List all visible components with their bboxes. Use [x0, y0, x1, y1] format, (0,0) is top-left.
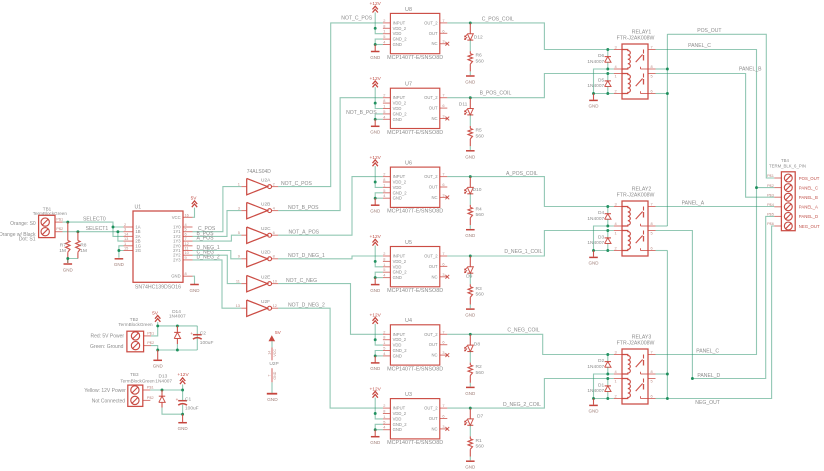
svg-text:5: 5 [383, 267, 385, 272]
svg-text:6: 6 [442, 103, 444, 108]
svg-text:2: 2 [383, 329, 385, 334]
svg-text:U4: U4 [405, 318, 412, 324]
svg-text:P$3: P$3 [767, 192, 774, 197]
svg-text:3: 3 [615, 45, 617, 50]
svg-text:PANEL_D: PANEL_D [697, 373, 720, 379]
svg-text:8: 8 [383, 177, 385, 182]
svg-text:NOT_C_POS: NOT_C_POS [341, 16, 372, 22]
svg-text:P$1: P$1 [147, 385, 154, 390]
svg-text:9: 9 [238, 254, 240, 259]
svg-text:INPUT: INPUT [393, 20, 406, 25]
svg-text:OUT_2: OUT_2 [424, 254, 438, 259]
svg-text:3: 3 [615, 202, 617, 207]
svg-text:GND: GND [393, 196, 402, 201]
svg-text:U1: U1 [135, 205, 142, 211]
svg-text:GND: GND [465, 313, 476, 318]
svg-text:6: 6 [442, 261, 444, 266]
svg-text:9: 9 [185, 255, 187, 260]
svg-text:POS_OUT: POS_OUT [799, 176, 820, 181]
svg-text:11: 11 [236, 278, 240, 283]
svg-text:D9: D9 [466, 274, 473, 280]
svg-text:GND: GND [465, 465, 476, 470]
svg-text:U7: U7 [405, 82, 412, 88]
svg-text:GND: GND [273, 371, 277, 379]
svg-text:NEG_OUT: NEG_OUT [799, 224, 820, 229]
svg-text:U2F: U2F [261, 299, 270, 305]
svg-text:GND: GND [589, 261, 600, 266]
svg-text:3: 3 [238, 205, 240, 210]
svg-text:6: 6 [273, 230, 275, 235]
svg-text:560: 560 [476, 133, 484, 139]
svg-text:GND: GND [267, 397, 278, 403]
svg-text:R6: R6 [476, 53, 483, 59]
svg-text:U5: U5 [405, 240, 412, 246]
svg-text:GND: GND [465, 233, 476, 238]
svg-text:U2P: U2P [269, 361, 278, 367]
svg-text:NC: NC [432, 274, 438, 279]
svg-text:MCP1407T-E/SNSO8D: MCP1407T-E/SNSO8D [387, 366, 443, 372]
svg-text:2: 2 [383, 403, 385, 408]
svg-text:D2: D2 [598, 358, 604, 364]
svg-text:D8: D8 [474, 342, 481, 348]
svg-text:6: 6 [651, 89, 653, 94]
svg-text:5V: 5V [275, 330, 282, 336]
svg-text:D_NEG_2_COIL: D_NEG_2_COIL [503, 402, 541, 408]
svg-text:VDD_2: VDD_2 [393, 337, 407, 342]
svg-text:Green: Ground: Green: Ground [90, 344, 124, 350]
svg-text:OUT: OUT [429, 106, 438, 111]
svg-text:2: 2 [615, 394, 617, 399]
svg-text:+: + [190, 331, 193, 336]
svg-text:2: 2 [383, 172, 385, 177]
svg-text:VDD: VDD [393, 343, 402, 348]
svg-text:3: 3 [442, 350, 444, 355]
svg-text:12: 12 [273, 303, 277, 308]
svg-text:1M: 1M [80, 248, 87, 254]
svg-text:OUT_2: OUT_2 [424, 95, 438, 100]
svg-text:560: 560 [476, 292, 484, 298]
svg-text:Yellow: 12V Power: Yellow: 12V Power [84, 388, 126, 394]
svg-text:Not Connected: Not Connected [92, 398, 126, 404]
svg-text:5: 5 [383, 109, 385, 114]
svg-text:PANEL_C: PANEL_C [688, 43, 711, 49]
svg-text:NC: NC [432, 426, 438, 431]
svg-text:6: 6 [442, 28, 444, 33]
svg-text:D7: D7 [477, 414, 484, 420]
svg-text:R4: R4 [476, 206, 483, 212]
svg-text:1M: 1M [59, 248, 66, 254]
svg-text:R5: R5 [476, 128, 483, 134]
svg-text:GND: GND [370, 440, 381, 445]
svg-text:2: 2 [615, 246, 617, 251]
svg-text:3: 3 [615, 350, 617, 355]
svg-text:GND_2: GND_2 [393, 270, 408, 275]
svg-text:VDD: VDD [393, 31, 402, 36]
svg-text:1: 1 [383, 29, 385, 34]
svg-text:D11: D11 [459, 102, 468, 108]
svg-text:7: 7 [651, 45, 653, 50]
svg-text:1N4007: 1N4007 [587, 216, 604, 222]
svg-text:1N4007: 1N4007 [587, 83, 604, 89]
svg-text:+: + [176, 397, 179, 402]
svg-text:3: 3 [442, 424, 444, 429]
svg-text:GND: GND [171, 274, 180, 279]
svg-text:2: 2 [615, 89, 617, 94]
svg-text:3: 3 [442, 114, 444, 119]
svg-text:5: 5 [651, 231, 653, 236]
svg-text:GND_2: GND_2 [393, 348, 408, 353]
svg-text:P$2: P$2 [147, 340, 154, 345]
svg-text:Orange: S0: Orange: S0 [10, 221, 36, 227]
svg-text:B_POS_COIL: B_POS_COIL [480, 90, 512, 96]
svg-text:5: 5 [651, 74, 653, 79]
svg-text:GND_2: GND_2 [393, 37, 408, 42]
svg-text:5: 5 [383, 419, 385, 424]
svg-text:Red: 5V Power: Red: 5V Power [90, 333, 124, 339]
svg-text:PANEL_C: PANEL_C [696, 348, 719, 354]
svg-text:PANEL_A: PANEL_A [799, 205, 818, 210]
svg-text:7: 7 [651, 350, 653, 355]
svg-text:6: 6 [442, 414, 444, 419]
svg-text:GND: GND [393, 275, 402, 280]
svg-text:OUT: OUT [429, 31, 438, 36]
svg-text:INPUT: INPUT [393, 254, 406, 259]
svg-text:6: 6 [651, 246, 653, 251]
svg-text:1N4007: 1N4007 [587, 59, 604, 65]
svg-text:TermBlockGreen: TermBlockGreen [120, 378, 155, 383]
svg-text:R7: R7 [60, 242, 67, 248]
svg-text:8: 8 [185, 271, 187, 276]
svg-text:GND: GND [465, 80, 476, 85]
svg-text:MCP1407T-E/SNSO8D: MCP1407T-E/SNSO8D [387, 440, 443, 446]
svg-text:U2B: U2B [261, 201, 270, 207]
svg-text:VDD: VDD [393, 416, 402, 421]
svg-text:560: 560 [476, 212, 484, 218]
svg-text:1: 1 [615, 74, 617, 79]
svg-text:GND: GND [393, 427, 402, 432]
svg-text:D10: D10 [473, 187, 482, 193]
svg-text:U8: U8 [405, 7, 412, 13]
svg-text:NEG_OUT: NEG_OUT [695, 400, 720, 406]
svg-text:13: 13 [236, 303, 240, 308]
svg-text:D13: D13 [158, 373, 167, 379]
svg-text:NOT_B_POS: NOT_B_POS [346, 110, 377, 116]
svg-text:SN74HC139DSO16: SN74HC139DSO16 [135, 285, 181, 291]
svg-text:MCP1407T-E/SNSO8D: MCP1407T-E/SNSO8D [387, 130, 443, 136]
svg-text:OUT_2: OUT_2 [424, 174, 438, 179]
svg-text:GND: GND [370, 366, 381, 371]
svg-text:PANEL_B: PANEL_B [739, 67, 762, 73]
svg-text:1: 1 [383, 414, 385, 419]
svg-text:14: 14 [268, 351, 272, 355]
svg-text:U3: U3 [405, 392, 412, 398]
svg-text:3: 3 [442, 39, 444, 44]
svg-text:VDD_2: VDD_2 [393, 180, 407, 185]
svg-text:MCP1407T-E/SNSO8D: MCP1407T-E/SNSO8D [387, 55, 443, 61]
svg-text:C_NEG_COIL: C_NEG_COIL [507, 328, 539, 334]
svg-text:P$1: P$1 [767, 173, 774, 178]
svg-text:D12: D12 [474, 35, 483, 41]
svg-text:D4: D4 [598, 210, 604, 216]
svg-text:GND: GND [589, 104, 600, 109]
svg-text:16: 16 [185, 212, 189, 217]
svg-text:1: 1 [383, 182, 385, 187]
svg-text:C1: C1 [185, 396, 191, 402]
svg-text:R8: R8 [80, 242, 87, 248]
svg-text:5: 5 [651, 379, 653, 384]
svg-text:Dot: S1: Dot: S1 [19, 237, 36, 243]
svg-text:1: 1 [383, 340, 385, 345]
svg-text:NC: NC [432, 195, 438, 200]
svg-text:GND: GND [63, 267, 74, 272]
svg-text:A_POS_COIL: A_POS_COIL [506, 171, 538, 177]
svg-text:1N4007: 1N4007 [155, 378, 172, 384]
svg-text:A_POS: A_POS [197, 236, 215, 242]
svg-text:C2: C2 [200, 330, 206, 336]
svg-text:P$2: P$2 [767, 183, 774, 188]
svg-text:TermBlockGreen: TermBlockGreen [118, 322, 153, 327]
svg-text:5V: 5V [191, 196, 198, 202]
svg-text:GND: GND [190, 288, 201, 293]
svg-text:100uF: 100uF [185, 406, 199, 412]
svg-text:VDD: VDD [393, 264, 402, 269]
svg-text:560: 560 [476, 444, 484, 450]
svg-text:NC: NC [432, 353, 438, 358]
svg-text:1: 1 [615, 231, 617, 236]
svg-text:VCC: VCC [273, 349, 277, 357]
svg-text:6: 6 [442, 182, 444, 187]
svg-text:INPUT: INPUT [393, 174, 406, 179]
svg-text:GND_2: GND_2 [393, 111, 408, 116]
svg-text:GND_2: GND_2 [393, 422, 408, 427]
svg-text:VDD_2: VDD_2 [393, 101, 407, 106]
svg-text:VCC: VCC [172, 215, 181, 220]
svg-text:R1: R1 [476, 438, 483, 444]
svg-text:6: 6 [651, 394, 653, 399]
svg-text:8: 8 [383, 335, 385, 340]
svg-text:GND: GND [589, 409, 600, 414]
svg-text:TERM_BLK_6_PIN: TERM_BLK_6_PIN [769, 163, 806, 168]
svg-text:8: 8 [273, 254, 275, 259]
svg-text:GND: GND [465, 391, 476, 396]
svg-text:GND: GND [114, 262, 125, 267]
svg-text:OUT: OUT [429, 416, 438, 421]
svg-text:SELECT1: SELECT1 [86, 226, 109, 232]
svg-text:2: 2 [273, 181, 275, 186]
svg-text:OUT_2: OUT_2 [424, 20, 438, 25]
svg-text:100uF: 100uF [200, 340, 214, 346]
svg-text:15: 15 [124, 246, 128, 251]
svg-text:2: 2 [383, 251, 385, 256]
svg-text:560: 560 [476, 59, 484, 65]
svg-text:7: 7 [442, 251, 444, 256]
svg-text:8: 8 [651, 221, 653, 226]
svg-text:8: 8 [651, 369, 653, 374]
svg-text:PANEL_D: PANEL_D [799, 214, 818, 219]
svg-text:GND: GND [393, 353, 402, 358]
svg-text:OUT: OUT [429, 185, 438, 190]
svg-text:P$2: P$2 [147, 395, 154, 400]
svg-text:7: 7 [651, 202, 653, 207]
svg-text:C_POS_COIL: C_POS_COIL [482, 17, 514, 23]
svg-text:7: 7 [442, 93, 444, 98]
svg-text:8: 8 [383, 409, 385, 414]
svg-text:OUT_2: OUT_2 [424, 406, 438, 411]
svg-text:7: 7 [268, 375, 272, 377]
svg-text:1N4007: 1N4007 [587, 364, 604, 370]
svg-text:5: 5 [383, 346, 385, 351]
svg-text:8: 8 [383, 23, 385, 28]
svg-text:D6: D6 [598, 53, 604, 59]
svg-text:7: 7 [442, 403, 444, 408]
svg-text:P$5: P$5 [767, 212, 774, 217]
svg-text:NC: NC [432, 41, 438, 46]
svg-text:GND_2: GND_2 [393, 190, 408, 195]
svg-text:8: 8 [651, 64, 653, 69]
svg-text:P$2: P$2 [56, 226, 63, 231]
svg-text:2: 2 [383, 93, 385, 98]
svg-text:U6: U6 [405, 161, 412, 167]
svg-text:D_NEG_1_COIL: D_NEG_1_COIL [504, 249, 542, 255]
svg-text:GND: GND [465, 154, 476, 159]
svg-text:INPUT: INPUT [393, 406, 406, 411]
svg-text:5: 5 [383, 34, 385, 39]
svg-text:P$4: P$4 [767, 202, 775, 207]
svg-text:U2C: U2C [261, 226, 271, 232]
svg-text:1: 1 [383, 104, 385, 109]
svg-text:R3: R3 [476, 286, 483, 292]
svg-text:INPUT: INPUT [393, 95, 406, 100]
svg-text:OUT: OUT [429, 342, 438, 347]
svg-text:FTR-J2AK008W: FTR-J2AK008W [617, 36, 655, 42]
svg-text:GND: GND [393, 117, 402, 122]
svg-text:MCP1407T-E/SNSO8D: MCP1407T-E/SNSO8D [387, 288, 443, 294]
svg-text:8: 8 [383, 98, 385, 103]
svg-text:U2A: U2A [261, 177, 271, 183]
svg-text:OUT: OUT [429, 264, 438, 269]
svg-text:P$1: P$1 [147, 330, 154, 335]
svg-text:1N4007: 1N4007 [587, 388, 604, 394]
svg-text:GND: GND [153, 364, 164, 369]
svg-text:3: 3 [442, 192, 444, 197]
svg-text:U2D: U2D [261, 250, 271, 256]
svg-text:D5: D5 [598, 77, 604, 83]
svg-text:P$6: P$6 [767, 221, 774, 226]
svg-text:OUT_2: OUT_2 [424, 332, 438, 337]
svg-text:1: 1 [615, 379, 617, 384]
svg-text:560: 560 [476, 370, 484, 376]
svg-text:PANEL_B: PANEL_B [799, 195, 818, 200]
svg-text:VDD: VDD [393, 106, 402, 111]
svg-text:PANEL_A: PANEL_A [682, 200, 705, 206]
svg-text:GND: GND [370, 55, 381, 60]
svg-text:1N4007: 1N4007 [169, 314, 186, 320]
svg-text:FTR-J2AK008W: FTR-J2AK008W [617, 193, 655, 199]
svg-text:GND: GND [370, 288, 381, 293]
svg-text:INPUT: INPUT [393, 332, 406, 337]
svg-text:GND: GND [393, 42, 402, 47]
svg-text:R2: R2 [476, 364, 483, 370]
svg-text:5: 5 [238, 230, 240, 235]
svg-text:VDD_2: VDD_2 [393, 259, 407, 264]
svg-text:GND: GND [178, 426, 189, 431]
svg-text:D_NEG_2: D_NEG_2 [197, 254, 220, 260]
svg-text:6: 6 [442, 340, 444, 345]
svg-text:2G: 2G [135, 248, 141, 253]
svg-text:D1: D1 [598, 382, 604, 388]
svg-text:POS_OUT: POS_OUT [697, 28, 721, 34]
svg-text:D3: D3 [598, 234, 604, 240]
svg-text:2: 2 [383, 18, 385, 23]
svg-text:5: 5 [383, 188, 385, 193]
svg-text:2Y3: 2Y3 [173, 257, 181, 262]
svg-text:VDD: VDD [393, 185, 402, 190]
svg-text:74ALS04D: 74ALS04D [247, 169, 272, 175]
svg-text:7: 7 [442, 172, 444, 177]
svg-text:PANEL_C: PANEL_C [799, 185, 818, 190]
svg-text:U2E: U2E [261, 274, 270, 280]
svg-text:TB4: TB4 [781, 158, 789, 163]
svg-text:3: 3 [442, 272, 444, 277]
svg-text:8: 8 [383, 256, 385, 261]
svg-text:VDD_2: VDD_2 [393, 26, 407, 31]
svg-text:1N4007: 1N4007 [587, 240, 604, 246]
svg-text:VDD_2: VDD_2 [393, 411, 407, 416]
svg-text:1: 1 [238, 181, 240, 186]
svg-text:MCP1407T-E/SNSO8D: MCP1407T-E/SNSO8D [387, 209, 443, 215]
svg-text:SELECT0: SELECT0 [83, 216, 106, 222]
svg-text:NC: NC [432, 116, 438, 121]
svg-text:1: 1 [383, 262, 385, 267]
svg-text:P$1: P$1 [56, 217, 63, 222]
svg-text:FTR-J2AK008W: FTR-J2AK008W [617, 341, 655, 347]
svg-text:7: 7 [442, 329, 444, 334]
svg-text:GND: GND [370, 130, 381, 135]
svg-text:7: 7 [442, 18, 444, 23]
svg-text:GND: GND [370, 209, 381, 214]
svg-text:+12V: +12V [177, 372, 189, 378]
svg-text:TB3: TB3 [130, 372, 139, 377]
